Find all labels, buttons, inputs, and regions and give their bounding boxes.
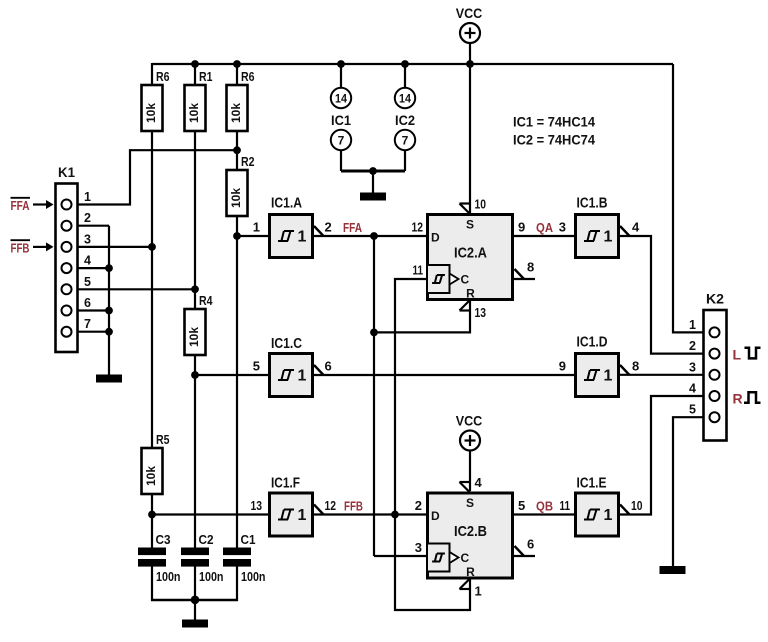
wire: caps line to ground [194, 600, 196, 620]
svg-text:6: 6 [527, 537, 534, 552]
wire: IC1.F input [152, 513, 268, 515]
svg-text:VCC: VCC [456, 5, 483, 21]
note IC1 = 74HC14 [513, 115, 595, 130]
wire: K1 pin4 [72, 267, 110, 269]
wire: FFA to IC2.B clock pin 3 [374, 555, 427, 557]
svg-text:C1: C1 [241, 532, 256, 547]
svg-text:5: 5 [84, 275, 91, 289]
op-amp/gate IC1.F [270, 476, 324, 537]
svg-text:IC1: IC1 [331, 112, 351, 128]
pin 9 IC2.A [518, 220, 525, 235]
svg-text:D: D [431, 231, 440, 245]
svg-text:IC1.C: IC1.C [271, 336, 302, 352]
svg-text:1: 1 [298, 507, 307, 524]
wire: IC1.B output to K2 pin 2 [620, 236, 711, 354]
pin 10 IC2.A S [475, 197, 487, 212]
wire: rail right end down to K2 pin 1 [673, 64, 711, 332]
wire: IC2.A clock pin 11 link [395, 279, 427, 515]
svg-text:IC2 = 74HC74: IC2 = 74HC74 [513, 133, 595, 148]
svg-text:11: 11 [413, 263, 424, 278]
svg-text:12: 12 [325, 498, 337, 513]
junction rail/IC2 pin14 [401, 60, 409, 68]
net label FFA [343, 221, 362, 235]
svg-text:11: 11 [560, 498, 571, 513]
svg-text:1: 1 [84, 190, 91, 204]
svg-text:100n: 100n [199, 569, 224, 584]
svg-text:IC2.A: IC2.A [454, 245, 487, 262]
resistor R6 (second) [227, 69, 255, 131]
junction R5/IC1.F row/C3 [148, 511, 156, 519]
svg-text:4: 4 [632, 220, 640, 235]
capacitor C3 [138, 532, 171, 567]
label FFA input arrow [11, 198, 54, 213]
label FFB input arrow [11, 240, 54, 255]
svg-text:5: 5 [689, 403, 696, 417]
svg-text:7: 7 [84, 317, 91, 331]
waveform icon R (pulse up) [744, 392, 761, 403]
svg-text:2: 2 [325, 220, 332, 235]
svg-text:8: 8 [632, 359, 639, 374]
label 100n C3 [156, 569, 181, 584]
op-amp/gate IC1.D [576, 335, 630, 397]
wire: K1 ground column [108, 226, 110, 375]
svg-text:IC1.D: IC1.D [577, 335, 608, 351]
svg-text:1: 1 [253, 220, 260, 235]
junction K1 pin7/gnd col [105, 328, 113, 336]
svg-text:IC1.B: IC1.B [577, 196, 608, 212]
svg-text:1: 1 [298, 368, 307, 385]
wire: K1 pin2 [72, 225, 110, 227]
wire: VCC rail down to IC2.A S pin 10 [469, 64, 471, 213]
negation diagonal IC2.B pin 6 [515, 546, 525, 556]
svg-text:4: 4 [84, 254, 91, 268]
svg-text:L: L [733, 347, 742, 363]
wire: K2 pin 5 to ground [673, 417, 711, 566]
svg-text:100n: 100n [156, 569, 181, 584]
pin 6 IC2.B [527, 537, 534, 552]
svg-text:5: 5 [518, 498, 525, 513]
svg-text:QB: QB [536, 500, 553, 514]
svg-text:IC1.F: IC1.F [271, 476, 300, 492]
wire: IC1.C output to IC1.D input [314, 374, 575, 376]
svg-text:IC1.A: IC1.A [271, 196, 302, 212]
junction K1 pin4/gnd col [105, 264, 113, 272]
ground under capacitors [182, 620, 208, 628]
wire: IC1.D output to K2 pin 3 [620, 374, 711, 376]
pin 5 IC1.C [253, 359, 260, 374]
wire: IC1.F output to IC2.B D (net FFB) [314, 513, 427, 515]
svg-text:10: 10 [631, 498, 643, 513]
svg-text:10k: 10k [144, 103, 158, 123]
wire: VCC to IC2.B S pin 4 [469, 451, 471, 492]
label 100n C1 [241, 569, 266, 584]
svg-text:1: 1 [689, 318, 696, 332]
svg-text:3: 3 [415, 540, 422, 555]
svg-text:3: 3 [84, 232, 91, 246]
wire: IC1.A output to IC2.A D (net FFA) [314, 235, 427, 237]
svg-text:2: 2 [689, 339, 696, 353]
svg-text:14: 14 [335, 92, 347, 106]
svg-text:IC1 = 74HC14: IC1 = 74HC14 [513, 115, 595, 130]
svg-text:R2: R2 [241, 154, 255, 169]
ground under K1 [96, 375, 122, 383]
svg-text:1: 1 [475, 584, 482, 599]
resistor R4 [185, 293, 214, 355]
svg-text:C3: C3 [156, 532, 171, 547]
svg-text:9: 9 [518, 220, 525, 235]
flip-flop IC2.A [427, 204, 513, 311]
label 100n C2 [199, 569, 224, 584]
wire: IC2.B Q to IC1.E input [514, 513, 575, 515]
svg-text:S: S [466, 496, 474, 510]
svg-text:2: 2 [415, 498, 422, 513]
pin 11 IC2.A [413, 263, 424, 278]
wire: IC1.A input column down to C1 [236, 236, 238, 548]
wire: IC1.A input [237, 235, 268, 237]
pin 1 IC2.B R [475, 584, 482, 599]
wire: K1 pin3 [72, 246, 154, 248]
pin 12 IC2.A [412, 220, 424, 235]
resistor R1 [185, 69, 213, 131]
svg-text:7: 7 [402, 134, 409, 148]
op-amp/gate IC1.A [270, 196, 324, 258]
resistor R5 [142, 432, 170, 494]
pin 4 IC2.B S [475, 475, 483, 490]
svg-text:2: 2 [84, 211, 91, 225]
svg-text:13: 13 [475, 305, 487, 320]
wire: C2 bottom lead [194, 566, 196, 601]
connector K2 [689, 291, 726, 441]
junction rail/IC1 pin14 [337, 60, 345, 68]
svg-text:10k: 10k [229, 103, 243, 123]
wire: FFA column down [373, 236, 375, 556]
resistor R2 [227, 154, 255, 216]
junction R4/IC1.C row [191, 371, 199, 379]
capacitor C2 [181, 532, 214, 567]
connector K1 [56, 164, 92, 352]
svg-text:R: R [466, 565, 475, 579]
svg-text:IC1.E: IC1.E [577, 476, 607, 492]
label L output [733, 347, 742, 363]
wire: FFB column down to IC2.B R [395, 515, 470, 611]
svg-text:6: 6 [84, 296, 91, 310]
op-amp/gate IC1.C [270, 336, 324, 397]
wire: C1 bottom lead [236, 566, 238, 601]
svg-text:QA: QA [536, 221, 553, 235]
pin 2 IC2.B [415, 498, 422, 513]
svg-text:C: C [461, 551, 470, 565]
svg-text:8: 8 [527, 260, 534, 275]
op-amp/gate IC1.E [576, 476, 630, 537]
svg-text:R4: R4 [199, 293, 213, 308]
svg-text:10k: 10k [187, 103, 201, 123]
wire: R2 bottom to IC1.A input [236, 216, 238, 236]
pin 4 IC1.B [632, 220, 640, 235]
svg-text:S: S [466, 218, 474, 232]
wire: K1 pin6 [72, 309, 110, 311]
svg-text:K2: K2 [706, 291, 724, 307]
svg-text:C: C [461, 272, 470, 286]
wire: rail down to R1 [194, 63, 196, 86]
wire: R6b bottom to R2 top [236, 131, 238, 170]
pin 6 IC1.C [325, 359, 332, 374]
pin 9 IC1.D [559, 359, 566, 374]
wire: IC1.C input [195, 374, 268, 376]
flip-flop IC2.B [427, 482, 513, 589]
svg-text:R: R [733, 391, 743, 407]
svg-text:K1: K1 [58, 164, 75, 180]
svg-text:4: 4 [689, 382, 696, 396]
wire: IC2.A Qbar pin 8 stub [514, 278, 535, 280]
wire: rail down to R6a [151, 63, 153, 86]
wire: R6a bottom to R5 top [151, 131, 153, 448]
pin 3 IC2.B [415, 540, 422, 555]
junction K1.3 on column [148, 243, 156, 251]
wire: rail down to R6b [236, 63, 238, 86]
svg-text:IC2.B: IC2.B [454, 523, 487, 540]
waveform icon L (notch down) [745, 348, 761, 359]
svg-text:R: R [466, 287, 475, 301]
svg-text:4: 4 [475, 475, 483, 490]
wire: top VCC rail [152, 63, 673, 65]
junction FFB [391, 511, 399, 519]
svg-text:D: D [431, 509, 440, 523]
svg-text:1: 1 [298, 229, 307, 246]
pin 8 IC1.D [632, 359, 639, 374]
svg-text:R6: R6 [156, 69, 170, 84]
svg-text:5: 5 [253, 359, 260, 374]
pin 3 IC1.B [559, 220, 566, 235]
svg-text:100n: 100n [241, 569, 266, 584]
pin 10 IC1.E [631, 498, 643, 513]
wire: R4 bottom to C2 [194, 355, 196, 548]
pin 8 IC2.A [527, 260, 534, 275]
wire: K1 pin1 [72, 150, 239, 204]
junction FFA/IC2.A R wire [370, 329, 378, 337]
pin 11 IC1.E [560, 498, 571, 513]
svg-text:FFB: FFB [344, 500, 363, 514]
junction K1.5 on column [191, 285, 199, 293]
wire: IC2.B Qbar pin 6 stub [514, 555, 535, 557]
note IC2 = 74HC74 [513, 133, 595, 148]
VCC symbol top [456, 5, 483, 64]
wire: K1 pin7 [72, 331, 110, 333]
svg-text:10k: 10k [229, 188, 243, 208]
svg-text:10k: 10k [187, 327, 201, 347]
net label FFB [344, 500, 363, 514]
junction K1 pin6/gnd col [105, 307, 113, 315]
net label QA [536, 221, 553, 235]
IC1/IC2 power pins and ground [331, 64, 415, 201]
junction FFA [370, 232, 378, 240]
svg-text:6: 6 [325, 359, 332, 374]
svg-text:3: 3 [559, 220, 566, 235]
pin 5 IC2.B [518, 498, 525, 513]
negation diagonal IC2.A pin 8 [515, 269, 525, 279]
net label QB [536, 500, 553, 514]
svg-text:1: 1 [604, 368, 613, 385]
junction R2/IC1.A input/C1 [233, 232, 241, 240]
ground under K2 pin 5 [660, 566, 686, 574]
svg-text:FFB: FFB [11, 241, 30, 255]
VCC symbol middle [456, 413, 483, 451]
pin 13 IC2.A R [475, 305, 487, 320]
op-amp/gate IC1.B [576, 196, 630, 258]
wire: R5 bottom to C3 [151, 493, 153, 548]
wire: K1 pin5 [72, 288, 197, 290]
pin 13 IC1.F [251, 498, 263, 513]
svg-text:R6: R6 [241, 69, 255, 84]
wire: IC2.A R pin 13 link [374, 300, 470, 332]
junction rail/VCC [466, 60, 474, 68]
wire: caps bottom bus [151, 599, 238, 601]
svg-text:14: 14 [399, 92, 411, 106]
wire: IC1.E output to K2 pin 4 [620, 396, 711, 515]
wire: IC2.A Q to IC1.B input [514, 235, 575, 237]
svg-text:IC2: IC2 [395, 112, 415, 128]
svg-text:1: 1 [604, 507, 613, 524]
svg-text:10: 10 [475, 197, 487, 212]
junction rail/R1 [191, 60, 199, 68]
resistor R6 (left) [142, 69, 170, 131]
pin 2 IC1.A [325, 220, 332, 235]
svg-text:R1: R1 [199, 69, 213, 84]
svg-text:C2: C2 [199, 532, 214, 547]
wire: R1 bottom to R4 top [194, 131, 196, 309]
junction rail/R6b [233, 60, 241, 68]
svg-text:10k: 10k [144, 466, 158, 486]
svg-text:9: 9 [559, 359, 566, 374]
svg-text:FFA: FFA [11, 199, 30, 213]
wire: C3 bottom lead [151, 566, 153, 601]
svg-text:12: 12 [412, 220, 424, 235]
svg-text:13: 13 [251, 498, 263, 513]
junction caps bottom [191, 596, 200, 605]
junction K1.1 wire/R2 [233, 146, 241, 154]
svg-text:1: 1 [604, 229, 613, 246]
svg-text:7: 7 [338, 134, 345, 148]
svg-text:3: 3 [689, 360, 696, 374]
label R output [733, 391, 743, 407]
pin 12 IC1.F [325, 498, 337, 513]
svg-text:R5: R5 [156, 432, 170, 447]
capacitor C1 [223, 532, 256, 567]
svg-text:FFA: FFA [343, 221, 362, 235]
svg-text:VCC: VCC [456, 413, 483, 429]
pin 1 IC1.A [253, 220, 260, 235]
